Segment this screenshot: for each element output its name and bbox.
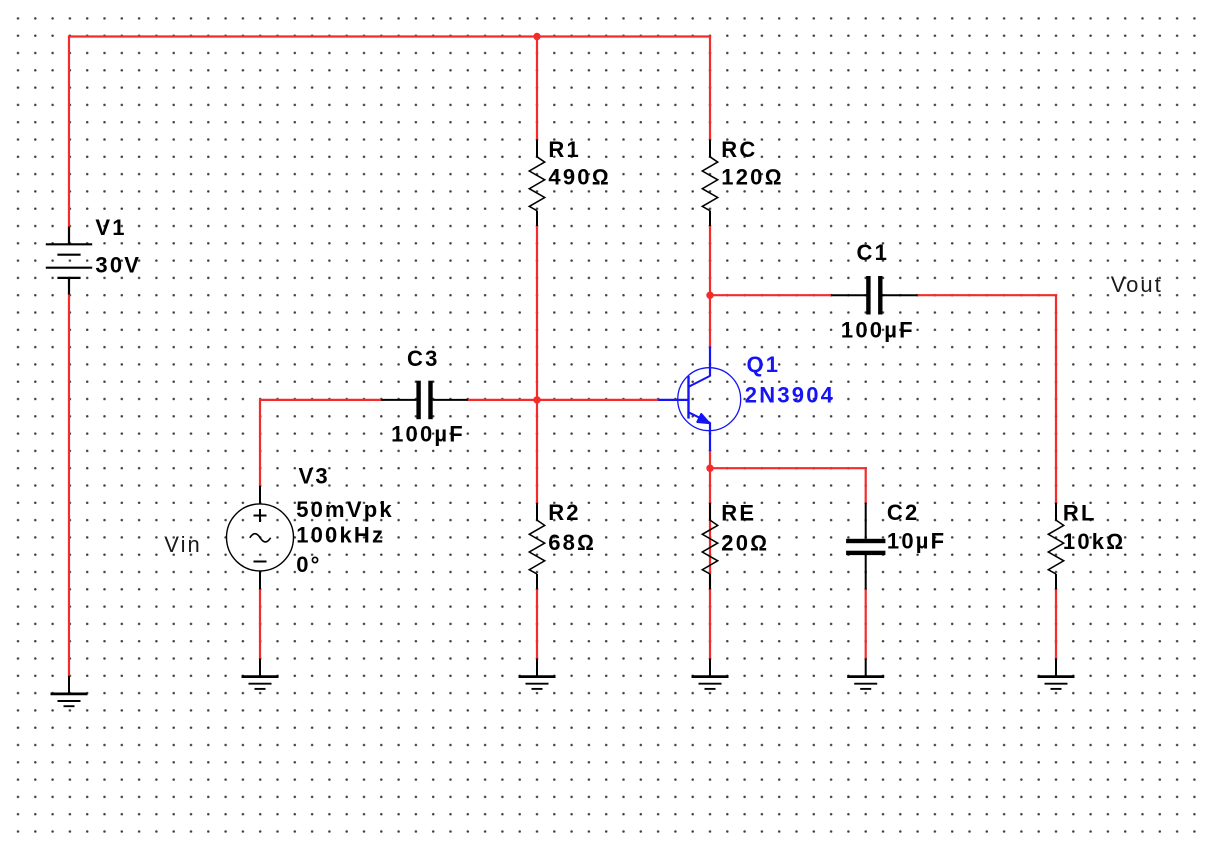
svg-text:50mVpk: 50mVpk <box>296 497 394 522</box>
svg-text:20Ω: 20Ω <box>721 531 769 556</box>
svg-text:68Ω: 68Ω <box>548 530 596 555</box>
svg-text:30V: 30V <box>95 252 141 277</box>
svg-text:10kΩ: 10kΩ <box>1063 529 1125 554</box>
svg-text:R1: R1 <box>548 137 581 162</box>
svg-text:490Ω: 490Ω <box>548 165 610 190</box>
svg-text:100µF: 100µF <box>841 318 915 343</box>
svg-text:Vout: Vout <box>1111 272 1163 297</box>
svg-text:C2: C2 <box>887 500 920 525</box>
svg-text:RL: RL <box>1063 500 1097 525</box>
svg-text:2N3904: 2N3904 <box>745 382 835 407</box>
svg-text:0°: 0° <box>296 552 321 577</box>
svg-text:Vin: Vin <box>164 532 201 557</box>
svg-text:R2: R2 <box>548 500 581 525</box>
svg-text:Q1: Q1 <box>747 352 781 377</box>
svg-text:C3: C3 <box>407 346 440 371</box>
svg-text:C1: C1 <box>857 240 890 265</box>
svg-text:10µF: 10µF <box>887 529 946 554</box>
svg-text:RE: RE <box>721 501 756 526</box>
svg-text:V3: V3 <box>299 463 330 488</box>
svg-text:V1: V1 <box>95 215 126 240</box>
svg-text:100µF: 100µF <box>391 421 465 446</box>
svg-text:RC: RC <box>721 137 757 162</box>
svg-text:100kHz: 100kHz <box>296 523 385 548</box>
svg-text:120Ω: 120Ω <box>721 165 783 190</box>
